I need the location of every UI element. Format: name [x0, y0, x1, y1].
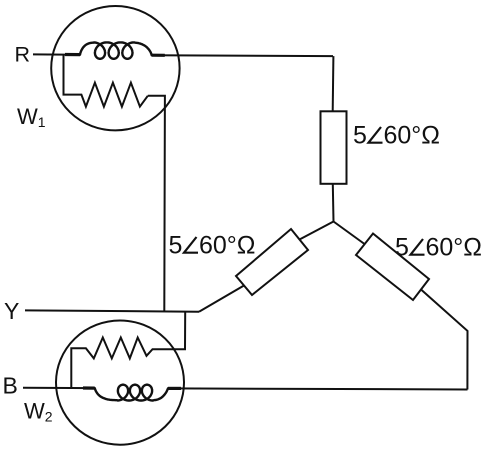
wire B phase left [23, 387, 95, 389]
svg-text:60°Ω: 60°Ω [426, 234, 483, 262]
svg-text:5: 5 [169, 232, 183, 260]
wattmeter W2 current coil (inductor) [95, 385, 168, 401]
wire Z2 to Y line [199, 286, 244, 312]
wattmeter W1 current coil (inductor) [80, 42, 152, 58]
wire B phase right [168, 388, 468, 389]
svg-text:B: B [3, 373, 18, 399]
wattmeter W2 pressure coil (zigzag resistor) [71, 338, 157, 389]
svg-text:60°Ω: 60°Ω [199, 232, 256, 260]
impedance Z2 (left diagonal box) [236, 229, 308, 295]
wattmeter W1 pressure coil (zigzag resistor) [64, 54, 148, 106]
svg-text:R: R [15, 43, 31, 67]
svg-text:Y: Y [4, 298, 19, 324]
impedance Z1 (vertical box) [321, 111, 347, 184]
wattmeter W2 current-coil lead right [168, 387, 181, 390]
wattmeter W2 circle [56, 321, 184, 445]
wire R phase horizontal [33, 54, 333, 56]
svg-text:60°Ω: 60°Ω [384, 122, 441, 150]
wattmeter W1 current-coil lead right [152, 54, 165, 57]
svg-text:5: 5 [395, 234, 409, 262]
wire Z3 down to B line corner [421, 290, 468, 390]
wattmeter W1 current-coil lead left [65, 53, 80, 56]
wire Z1 to star point [332, 184, 335, 222]
wire star point to Z3 [334, 222, 365, 245]
wattmeter W2 current-coil lead left [83, 386, 95, 389]
wire star point to Z2 [300, 222, 334, 240]
wire Y line to W2 pressure coil [158, 312, 186, 350]
wire from W1 pressure coil down to Y line [148, 96, 165, 312]
wattmeter W1 circle [51, 6, 179, 130]
impedance Z3 (right diagonal box) [356, 234, 429, 301]
svg-text:5: 5 [353, 122, 367, 150]
wire from R line down to impedance Z1 [332, 56, 335, 111]
wire Y phase [25, 310, 199, 311]
